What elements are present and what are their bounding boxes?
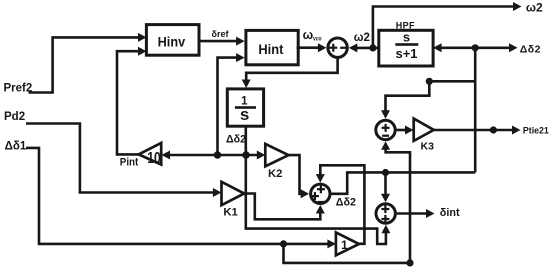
block Hint xyxy=(246,30,298,64)
block 1/s integrator xyxy=(227,89,263,126)
node omega2 label xyxy=(354,32,370,44)
svg-text:K3: K3 xyxy=(421,141,435,153)
svg-text:ω: ω xyxy=(303,28,314,42)
svg-text:vco: vco xyxy=(313,36,322,43)
node corner dot K3 feed xyxy=(426,78,433,85)
wire Hint output to omega summer xyxy=(297,43,327,52)
wire omega summer output to 1/s integrator xyxy=(242,57,338,88)
node omega2 dot xyxy=(369,44,376,51)
svg-text:1: 1 xyxy=(341,238,348,252)
svg-text:ω2: ω2 xyxy=(526,0,543,14)
summing junction Delta-delta2 (plus plus minus) xyxy=(311,184,330,203)
svg-text:s: s xyxy=(403,30,410,45)
wire Pref2 to Hinv xyxy=(29,33,147,93)
node omega_vco label xyxy=(303,28,322,42)
wire Delta-delta2 summer output to feedback node xyxy=(331,172,475,193)
node dot bottom bus corner xyxy=(406,259,413,266)
node Pd2 input label xyxy=(4,111,25,123)
summing junction omega (plus minus) xyxy=(328,38,347,57)
svg-text:δint: δint xyxy=(440,207,460,219)
wire delta-delta2 output arrow xyxy=(475,43,517,52)
svg-text:Δδ2: Δδ2 xyxy=(226,134,246,146)
svg-text:K2: K2 xyxy=(268,168,282,180)
node omega2 output label xyxy=(526,0,543,14)
wire delta-delta2 node into HPF input xyxy=(433,43,475,52)
wire Pint feedback to Hinv input 2 xyxy=(117,47,147,155)
wire HPF output into omega summer minus xyxy=(349,43,379,52)
gain 1 triangle xyxy=(336,232,359,255)
node Delta-delta2 label near 1/s output xyxy=(226,134,246,146)
svg-text:s: s xyxy=(240,105,249,124)
summing junction delta-int (plus plus) xyxy=(376,204,395,223)
block Hinv xyxy=(146,25,199,56)
svg-text:Pref2: Pref2 xyxy=(4,83,33,95)
wire delta2 line with arrows into 10 gain and K2 gain xyxy=(162,151,266,160)
svg-text:K1: K1 xyxy=(223,206,237,218)
wire delta-delta2 vertical feedback xyxy=(474,48,477,173)
svg-text:s+1: s+1 xyxy=(395,46,417,61)
wire K3 summer to K3 gain xyxy=(397,126,414,135)
wire 1/s output down to delta2 line xyxy=(245,126,248,155)
node Pref2 input label xyxy=(4,83,33,95)
wire Delta-delta1 to 1 gain xyxy=(26,148,336,249)
svg-text:Δδ2: Δδ2 xyxy=(336,196,356,208)
svg-text:Ptie21: Ptie21 xyxy=(523,125,549,135)
wire deltaref Hinv to Hint xyxy=(198,37,245,46)
node delta-int label xyxy=(440,207,460,219)
svg-text:Δδ1: Δδ1 xyxy=(5,141,27,153)
svg-text:Pint: Pint xyxy=(120,157,139,169)
wire delta2 feedback to Hint input 2 xyxy=(218,53,245,155)
node dot delta2 below 1/s xyxy=(242,151,250,159)
svg-text:δref: δref xyxy=(212,29,230,39)
svg-text:10: 10 xyxy=(147,150,161,167)
wire branch to K3 summer plus input xyxy=(381,81,475,119)
node deltaref label xyxy=(212,29,230,39)
gain K1 triangle xyxy=(222,182,245,219)
node dot delta2 to Hint feedback xyxy=(214,151,222,159)
wire delta2 down to delta-int summer bottom input xyxy=(246,155,391,244)
node Pint label xyxy=(120,157,139,169)
node delta-delta2 dot xyxy=(472,44,479,51)
svg-text:Hint: Hint xyxy=(258,41,283,57)
node Ptie21 output label xyxy=(523,125,549,135)
block HPF s/(s+1) xyxy=(379,30,433,67)
gain K2 triangle xyxy=(265,144,288,180)
node dot Delta-delta1 branch xyxy=(280,240,287,247)
wire omega2 to top-right output xyxy=(373,2,522,48)
gain 10 triangle (Pint) pointing left xyxy=(139,143,162,167)
node Ptie21 dot xyxy=(490,126,497,133)
svg-text:Δδ2: Δδ2 xyxy=(520,43,541,55)
svg-text:ω2: ω2 xyxy=(354,32,370,44)
svg-text:Hinv: Hinv xyxy=(158,33,186,49)
node Delta-delta1 input label xyxy=(5,141,27,153)
gain K3 triangle xyxy=(414,119,434,153)
wire K3 output to Ptie21 xyxy=(434,126,521,135)
node delta-delta2 output label xyxy=(520,43,541,55)
wire Delta-delta1 branch to K3 summer minus input xyxy=(284,141,411,263)
wire Pd2 to K1 xyxy=(26,124,221,198)
wire 1 gain output up to Delta-delta2 summer top input xyxy=(316,165,365,244)
wire K2 output to Delta-delta2 summer plus xyxy=(289,155,310,198)
svg-text:Pd2: Pd2 xyxy=(4,111,25,123)
wire K1 output to Delta-delta2 summer minus xyxy=(244,194,325,220)
block HPF label xyxy=(396,21,415,31)
node Delta-delta2 label near summer xyxy=(336,196,356,208)
wire Delta-delta2 line to delta-int summer xyxy=(381,169,390,202)
wire delta-int output arrow xyxy=(397,209,435,218)
summing junction K3 (plus minus) xyxy=(376,120,395,139)
